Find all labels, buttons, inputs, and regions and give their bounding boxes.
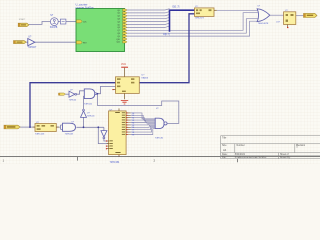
wire speaker box to port out [296, 14, 304, 16]
wire decoder pin 9 to NAND30 [131, 127, 156, 132]
svg-text:Q1: Q1 [117, 13, 119, 15]
wire cap port to inverter [66, 93, 70, 95]
junction decoder branch [97, 126, 99, 128]
svg-text:Sheet of: Sheet of [280, 153, 289, 156]
bus D[0..7] [170, 10, 195, 32]
svg-text:KA555: KA555 [142, 77, 149, 80]
svg-text:Drawn By:: Drawn By: [280, 156, 291, 159]
svg-text:counter.SchDoc: counter.SchDoc [76, 6, 95, 10]
junction dots [29, 93, 99, 128]
sheet entry Q7 [123, 29, 128, 31]
sheet symbol right pin entries and names [116, 9, 127, 44]
wire decoder pin 4 to NAND30 [131, 120, 156, 122]
port P2 (second input) [14, 41, 27, 44]
component box X1 [60, 19, 66, 24]
wire tri1 branch down [83, 117, 85, 127]
svg-text:Size: Size [222, 145, 227, 147]
svg-text:74HC30: 74HC30 [155, 137, 164, 139]
svg-text:Q10: Q10 [116, 39, 119, 41]
svg-text:Q0: Q0 [117, 10, 119, 12]
wire Q6 [125, 26, 170, 27]
svg-text:Q5: Q5 [117, 24, 119, 26]
wire Q3 [125, 17, 170, 18]
svg-text:74HC04: 74HC04 [69, 99, 77, 101]
wire Q9 to OR gate [125, 19, 259, 34]
wire branch to decoder pin2 [98, 127, 109, 143]
power VCC at 555 [121, 66, 128, 68]
sheet entry Q9 [123, 35, 128, 37]
sheet entry rst [76, 41, 82, 44]
wire tri2 to decoder pin1 [104, 139, 110, 141]
wire AND output run [76, 126, 104, 128]
wire tri2 top [103, 127, 105, 130]
sheet bottom border [0, 156, 320, 158]
wire inverter to NAND [77, 91, 85, 94]
wire buffer to sheet symbol [35, 41, 76, 43]
decoder inner pin names [110, 112, 126, 153]
svg-text:Q6: Q6 [117, 27, 119, 29]
title block [221, 136, 320, 159]
wire Q0 [125, 9, 170, 10]
wire Q5 [125, 23, 170, 24]
inverter U10 (points down) [101, 131, 107, 139]
svg-text:D[0..7]: D[0..7] [173, 7, 180, 9]
svg-text:Title: Title [222, 136, 227, 139]
svg-text:74HC04: 74HC04 [87, 115, 95, 117]
port P3 (bottom left) [4, 125, 20, 129]
wire Q4 [125, 20, 170, 21]
switch S1 (circle component) [50, 18, 58, 26]
sheet entry Q10 [123, 38, 128, 40]
decoder right pin names [132, 113, 135, 137]
wire tri1 up to NAND input [83, 96, 86, 109]
sheet symbol U_counter [76, 9, 125, 52]
sheet entry Q2 [123, 15, 128, 17]
zone tick 1 [77, 157, 79, 161]
sheet entry clk [76, 20, 82, 23]
svg-text:Q9: Q9 [117, 36, 119, 38]
junction NAND out [97, 93, 99, 95]
sheet entry Q0 [123, 9, 128, 11]
wire U-top output to OR gate [217, 9, 258, 11]
NAND gate U8 [84, 89, 96, 99]
junction port3 wire [29, 126, 31, 128]
svg-text:Revision: Revision [296, 145, 306, 147]
svg-text:Q4: Q4 [117, 21, 119, 23]
sheet background [0, 0, 320, 164]
svg-text:8/04/2021: 8/04/2021 [235, 154, 246, 156]
wire Q1 [125, 12, 170, 13]
svg-text:Date:: Date: [222, 153, 228, 156]
svg-text:D:\altium\counter\main.SchDoc: D:\altium\counter\main.SchDoc [235, 156, 268, 159]
power GND at 555 [121, 100, 128, 104]
wire box to sheet symbol [66, 21, 76, 23]
port P4 (output right) [304, 13, 318, 17]
svg-text:File:: File: [222, 157, 227, 159]
sheet entry Q11 [123, 41, 128, 43]
svg-text:74HC123: 74HC123 [35, 134, 45, 136]
wire decoder pin 2 to NAND30 [131, 115, 156, 120]
thick net: top chip pin down and left to 555 right pin [139, 14, 194, 83]
decoder chip U11 (big bottom chip) [106, 108, 126, 157]
wire decoder pin 3 to NAND30 [131, 118, 156, 121]
NAND30 gate U12 [155, 118, 167, 128]
wire port3 to U2 [20, 126, 35, 128]
inverter U7 (above, points right) [69, 91, 77, 97]
wire decoder pin 1 to NAND30 [131, 113, 156, 119]
svg-text:74HC4078: 74HC4078 [258, 23, 269, 25]
buffer U1 [28, 39, 35, 46]
sheet entry Q4 [123, 21, 128, 23]
svg-text:Q3: Q3 [117, 19, 119, 21]
svg-text:A4: A4 [223, 148, 227, 152]
svg-text:Q7: Q7 [117, 30, 119, 32]
wire decoder pin 6 to NAND30 [131, 123, 156, 126]
svg-text:74HC07: 74HC07 [28, 47, 37, 49]
wire NAND out to 555 TR pin [97, 86, 116, 93]
zone tick 2 [237, 159, 239, 163]
wire Q10 to OR gate [125, 21, 258, 36]
wire port1 to switch [29, 22, 50, 25]
svg-text:Number: Number [237, 144, 245, 147]
port P1 (top left input) [18, 23, 29, 26]
sheet entry Q6 [123, 26, 128, 28]
wire port2 to buffer [26, 41, 28, 43]
junction tri1 [83, 126, 85, 128]
svg-text:START: START [19, 18, 26, 21]
wire decoder pin 7 to NAND30 [131, 125, 156, 127]
sheet entry Q8 [123, 32, 128, 34]
svg-text:SW-PB: SW-PB [50, 27, 58, 29]
sheet entry Q5 [123, 23, 128, 25]
svg-text:D[0..7]: D[0..7] [163, 34, 170, 36]
latch U3 (top middle chip) [195, 8, 217, 17]
capacitor port C1 [59, 93, 66, 95]
svg-text:74HC08: 74HC08 [65, 133, 74, 135]
chip U2 (bottom left IC) [33, 124, 59, 132]
wire Q2 [125, 15, 170, 16]
svg-text:Q8: Q8 [117, 33, 119, 35]
thick net: 555 left pin to bottom-left vertical [30, 83, 116, 127]
decoder right pin stubs [126, 113, 131, 135]
wire decoder pin 8 to NAND30 [131, 126, 156, 129]
svg-text:Q2: Q2 [117, 16, 119, 18]
sheet entry Q1 [123, 12, 128, 14]
AND gate U6 (bottom left) [63, 123, 76, 131]
wire switch to box [58, 21, 60, 23]
wire U2 to AND gate [56, 125, 62, 129]
wire decoder pin 10 to NAND30 [131, 129, 156, 135]
wire OR output to speaker box [270, 14, 284, 16]
inverter U9 (points up) [81, 109, 87, 117]
sheet symbol pin name texts [116, 10, 119, 44]
pin red dot 555 [112, 89, 113, 90]
OR gate U4 (top right) [257, 9, 270, 22]
wire Q8 to OR gate [125, 13, 258, 31]
svg-text:VCC: VCC [121, 63, 126, 66]
svg-text:74HC00: 74HC00 [84, 104, 93, 106]
wire NAND30 feedback loop [98, 94, 179, 124]
wire decoder pin 5 to NAND30 [131, 122, 156, 125]
svg-text:74HC573: 74HC573 [195, 18, 205, 20]
speaker LS1 (yellow box right) [284, 12, 296, 28]
svg-text:Q11: Q11 [117, 42, 120, 44]
timer 555 U5 [112, 68, 139, 100]
sheet entry Q3 [123, 18, 128, 20]
svg-text:74HC154: 74HC154 [110, 162, 120, 164]
decoder right pin red dots [126, 112, 127, 113]
